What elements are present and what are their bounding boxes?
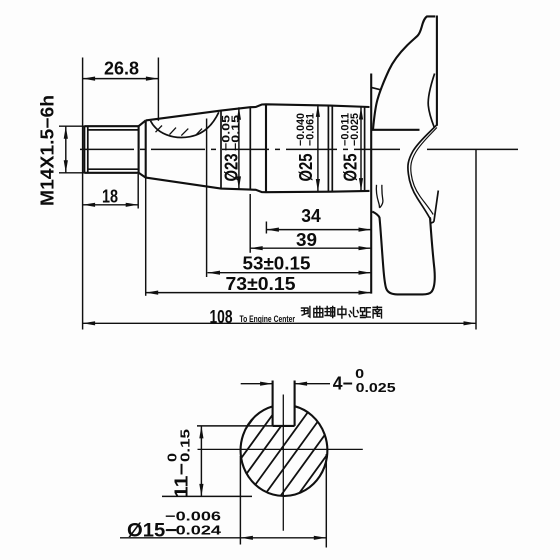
svg-text:0: 0 bbox=[355, 366, 364, 381]
dim 73 line bbox=[146, 292, 371, 294]
svg-text:11−: 11− bbox=[171, 463, 191, 498]
groove line b bbox=[331, 106, 333, 192]
svg-text:Ø25: Ø25 bbox=[340, 154, 360, 182]
svg-text:108: 108 bbox=[210, 307, 233, 327]
svg-text:34: 34 bbox=[301, 206, 321, 226]
dimension M14X1.5-6h extension top bbox=[59, 125, 84, 127]
slot floor extension line bbox=[197, 425, 273, 427]
thread outer top edge bbox=[84, 125, 138, 127]
svg-text:−0.024: −0.024 bbox=[165, 523, 222, 538]
label O23 -0.05/-0.15 bbox=[221, 115, 243, 182]
thread minor top line bbox=[88, 129, 139, 131]
diameter dim line O25 first journal bbox=[317, 104, 319, 191]
keyway pocket hatch tick 3 bbox=[181, 129, 188, 136]
dim 34 extension bbox=[265, 222, 267, 234]
web crankpin fillet inner curve bbox=[411, 128, 437, 215]
thread minor bottom line bbox=[88, 168, 139, 170]
centerline main axis bbox=[80, 148, 518, 150]
svg-text:26.8: 26.8 bbox=[104, 59, 139, 79]
circle bottom extension line bbox=[162, 495, 252, 497]
dim 53 extension bbox=[206, 119, 208, 278]
dim O15 extension right bbox=[325, 454, 327, 548]
taper start edge bbox=[145, 120, 147, 177]
relief line at web bbox=[364, 107, 366, 191]
web hub sliver curve a bbox=[376, 185, 379, 208]
taper / shaft bottom edge bbox=[146, 178, 370, 193]
section vertical centerline bbox=[282, 395, 284, 531]
dim O15 extension left bbox=[239, 456, 241, 545]
dim 26.8 extension left long bbox=[82, 58, 84, 330]
web hub sliver curve b bbox=[379, 185, 383, 208]
neck bottom edge bbox=[139, 173, 146, 178]
taper big end edge bbox=[220, 111, 222, 189]
thread outer bottom edge bbox=[84, 172, 138, 174]
svg-text:53±0.15: 53±0.15 bbox=[243, 254, 311, 274]
keyway slot floor bbox=[273, 425, 295, 427]
dim 26.8 line bbox=[83, 78, 159, 80]
diameter dim line O25 second journal bbox=[360, 107, 362, 191]
groove line a bbox=[327, 106, 329, 192]
web bottom lobe outline bbox=[372, 212, 434, 295]
keyway slot white fill bbox=[274, 400, 294, 425]
svg-text:39: 39 bbox=[296, 230, 317, 250]
dimension M14X1.5-6h line bbox=[65, 126, 67, 173]
svg-text:4−: 4− bbox=[333, 374, 353, 394]
section hatching bbox=[194, 400, 367, 500]
step to first journal bbox=[265, 104, 267, 192]
lobe notch bbox=[430, 222, 434, 224]
web top profile curve bbox=[373, 16, 435, 129]
keyway slot right side bbox=[294, 381, 296, 426]
dim 73 extension (taper edge extended) bbox=[145, 178, 147, 296]
dim 18 extension right bbox=[137, 174, 139, 209]
label O25 -0.011/-0.025 bbox=[339, 113, 361, 182]
dim O15 line bbox=[120, 537, 326, 539]
keyway pocket arc on taper bbox=[151, 112, 219, 137]
taper / shaft top edge bbox=[146, 104, 370, 120]
svg-text:0.15: 0.15 bbox=[178, 429, 192, 462]
dim 39 line bbox=[250, 247, 371, 249]
svg-text:73±0.15: 73±0.15 bbox=[226, 274, 296, 294]
svg-text:18: 18 bbox=[102, 187, 118, 207]
web lower right slant edge bbox=[434, 191, 438, 222]
dim 18 line bbox=[83, 204, 139, 206]
svg-text:−0.061: −0.061 bbox=[304, 113, 316, 146]
neck top edge bbox=[139, 120, 146, 126]
label chinese to-crank-center note bbox=[302, 307, 382, 319]
web right face bbox=[436, 16, 438, 126]
keyway pocket hatch tick 4 bbox=[197, 129, 202, 135]
svg-text:Ø25: Ø25 bbox=[296, 154, 316, 182]
dim 39 extension bbox=[249, 194, 251, 253]
crankpin boss lens curve bbox=[428, 74, 434, 128]
dim 53 line bbox=[208, 272, 372, 274]
seat end edge bbox=[249, 107, 251, 189]
svg-text:−0.025: −0.025 bbox=[349, 113, 361, 146]
label 11 -0/-0.15 bbox=[165, 429, 192, 498]
thread end shoulder bbox=[138, 126, 140, 173]
web face tick bbox=[372, 88, 380, 90]
svg-text:Ø23: Ø23 bbox=[222, 154, 242, 182]
keyway slot left side bbox=[272, 381, 274, 426]
svg-text:−0.006: −0.006 bbox=[165, 509, 221, 524]
keyway pocket hatch tick 2 bbox=[170, 128, 177, 135]
crankpin top line bbox=[371, 129, 419, 131]
dim 4 line right segment bbox=[295, 383, 330, 385]
svg-text:To Engine Center: To Engine Center bbox=[240, 314, 296, 324]
section circle bbox=[241, 406, 328, 496]
dim 11 line bbox=[200, 426, 202, 497]
shaft left end face bbox=[83, 126, 85, 173]
svg-text:−0.15: −0.15 bbox=[230, 115, 242, 151]
dimension M14X1.5-6h extension bottom bbox=[59, 172, 84, 174]
dim 108 line bbox=[83, 322, 476, 324]
diameter dim line O23 bbox=[238, 107, 240, 189]
dim 26.8 extension right bbox=[157, 58, 159, 121]
svg-text:0: 0 bbox=[165, 453, 179, 462]
keyway pocket hatch tick 1 bbox=[156, 126, 163, 133]
web crankpin fillet outer curve bbox=[408, 125, 437, 220]
section horizontal centerline bbox=[198, 448, 363, 450]
dim 34 line bbox=[266, 229, 371, 231]
label O25 -0.040/-0.061 bbox=[295, 113, 317, 182]
svg-text:0.025: 0.025 bbox=[356, 380, 396, 395]
web left face bbox=[370, 74, 372, 294]
dim 108 extension engine center bbox=[475, 149, 477, 329]
thread chamfer line bbox=[87, 126, 89, 173]
svg-text:M14X1.5−6h: M14X1.5−6h bbox=[38, 95, 58, 206]
dim 4 line left segment bbox=[241, 383, 273, 385]
